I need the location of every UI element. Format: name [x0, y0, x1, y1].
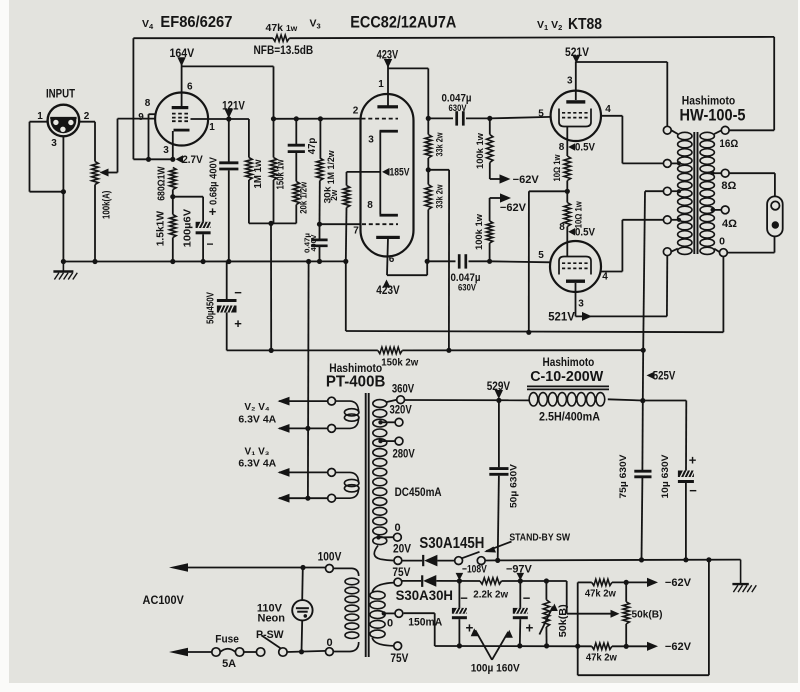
svg-text:1.5k1W: 1.5k1W: [155, 210, 166, 246]
svg-text:3: 3: [567, 76, 573, 87]
svg-text:EF86/6267: EF86/6267: [160, 14, 232, 31]
svg-text:47k 1w: 47k 1w: [266, 22, 298, 34]
svg-text:50k(B): 50k(B): [632, 608, 663, 620]
svg-text:33k 2w: 33k 2w: [434, 184, 445, 208]
svg-text:5: 5: [538, 250, 544, 261]
svg-text:100µ 160V: 100µ 160V: [471, 663, 521, 675]
svg-text:9: 9: [138, 112, 144, 123]
svg-text:−: −: [460, 591, 468, 606]
svg-text:3: 3: [51, 138, 57, 149]
svg-text:150k 1w: 150k 1w: [275, 159, 286, 189]
svg-text:521V: 521V: [548, 311, 575, 323]
svg-text:100µ6V: 100µ6V: [182, 209, 193, 248]
svg-text:−62V: −62V: [665, 577, 692, 589]
svg-text:1M 1w: 1M 1w: [253, 159, 264, 188]
svg-text:33k 2w: 33k 2w: [434, 132, 445, 156]
svg-text:8: 8: [367, 200, 373, 211]
svg-text:20k 1/2w: 20k 1/2w: [298, 181, 309, 213]
svg-text:2: 2: [84, 111, 90, 122]
svg-text:2.5H/400mA: 2.5H/400mA: [539, 411, 600, 423]
svg-text:100k 1w: 100k 1w: [475, 132, 486, 169]
svg-text:Neon: Neon: [258, 612, 286, 624]
svg-text:6.3V 4A: 6.3V 4A: [238, 413, 276, 425]
svg-text:320V: 320V: [389, 405, 412, 417]
svg-text:1: 1: [209, 122, 215, 133]
svg-text:0.5V: 0.5V: [575, 142, 596, 154]
svg-text:HW-100-5: HW-100-5: [680, 106, 746, 125]
svg-text:KT88: KT88: [568, 16, 602, 33]
svg-text:10µ 630V: 10µ 630V: [660, 454, 671, 499]
svg-text:5A: 5A: [222, 658, 236, 670]
svg-text:75µ 630V: 75µ 630V: [618, 454, 629, 499]
svg-text:680Ω1W: 680Ω1W: [156, 166, 167, 201]
svg-text:AC100V: AC100V: [143, 595, 185, 607]
svg-text:Fuse: Fuse: [215, 633, 239, 645]
svg-text:1: 1: [378, 79, 384, 90]
svg-text:V₂ V₄: V₂ V₄: [244, 402, 270, 413]
svg-text:100k 1w: 100k 1w: [474, 213, 485, 250]
svg-text:400V: 400V: [309, 234, 318, 251]
svg-text:360V: 360V: [392, 383, 415, 395]
svg-text:0: 0: [326, 637, 332, 649]
svg-text:2.2k 2w: 2.2k 2w: [473, 588, 509, 600]
svg-text:V₁ V₃: V₁ V₃: [245, 447, 270, 458]
svg-text:DC450mA: DC450mA: [395, 487, 442, 499]
svg-text:0.5V: 0.5V: [575, 226, 596, 238]
svg-text:47p: 47p: [307, 138, 318, 155]
svg-text:100k(A): 100k(A): [101, 191, 113, 220]
svg-text:−: −: [523, 591, 531, 606]
svg-text:50µ 630V: 50µ 630V: [508, 463, 519, 508]
svg-text:−: −: [234, 285, 242, 300]
svg-text:630V: 630V: [458, 283, 476, 293]
svg-text:STAND-BY SW: STAND-BY SW: [509, 532, 570, 543]
svg-text:121V: 121V: [222, 101, 245, 113]
svg-text:−: −: [206, 237, 213, 251]
svg-text:+: +: [209, 204, 217, 219]
svg-text:Hashimoto: Hashimoto: [543, 357, 595, 369]
svg-text:100V: 100V: [318, 551, 342, 563]
svg-text:3: 3: [368, 134, 374, 145]
svg-text:630V: 630V: [449, 103, 467, 113]
svg-text:4Ω: 4Ω: [722, 218, 737, 230]
svg-text:8Ω: 8Ω: [721, 180, 736, 192]
svg-text:10Ω 1w: 10Ω 1w: [552, 154, 563, 181]
svg-text:47k 2w: 47k 2w: [586, 651, 618, 663]
svg-text:1: 1: [37, 111, 43, 122]
svg-text:8: 8: [559, 222, 565, 233]
svg-text:C-10-200W: C-10-200W: [530, 369, 603, 385]
svg-text:7: 7: [353, 226, 359, 237]
svg-text:8: 8: [559, 142, 565, 153]
svg-text:525V: 525V: [653, 371, 676, 383]
svg-text:−62V: −62V: [500, 202, 527, 214]
svg-text:185V: 185V: [390, 167, 411, 179]
svg-text:INPUT: INPUT: [46, 89, 75, 101]
svg-text:P-SW: P-SW: [256, 629, 284, 641]
svg-text:2w: 2w: [329, 189, 340, 201]
svg-text:3: 3: [163, 145, 169, 156]
svg-text:8: 8: [145, 98, 151, 109]
svg-text:+: +: [234, 316, 242, 331]
svg-text:1M 1/2w: 1M 1/2w: [326, 150, 337, 185]
svg-text:150k 2w: 150k 2w: [381, 357, 419, 369]
svg-text:−108V: −108V: [462, 564, 487, 576]
svg-text:10Ω 1w: 10Ω 1w: [573, 201, 584, 228]
svg-text:0: 0: [387, 617, 393, 629]
svg-text:S30A145H: S30A145H: [419, 535, 484, 552]
svg-text:−: −: [689, 483, 697, 498]
svg-text:20V: 20V: [393, 543, 411, 555]
svg-text:47k 2w: 47k 2w: [585, 588, 617, 600]
svg-text:16Ω: 16Ω: [719, 138, 738, 150]
svg-text:6.3V 4A: 6.3V 4A: [238, 458, 276, 470]
svg-text:2: 2: [353, 106, 359, 117]
svg-text:S30A30H: S30A30H: [396, 587, 453, 603]
svg-text:5: 5: [538, 109, 544, 120]
svg-text:280V: 280V: [392, 449, 415, 461]
svg-text:0: 0: [394, 522, 400, 534]
svg-text:75V: 75V: [392, 567, 410, 579]
svg-text:PT-400B: PT-400B: [326, 374, 386, 391]
svg-text:150mA: 150mA: [408, 616, 442, 628]
svg-text:423V: 423V: [376, 285, 400, 297]
svg-text:6: 6: [389, 254, 395, 265]
svg-text:6: 6: [187, 82, 193, 93]
svg-text:−62V: −62V: [513, 174, 540, 186]
svg-text:+: +: [526, 621, 534, 636]
svg-text:50µ450V: 50µ450V: [205, 292, 216, 324]
svg-text:ECC82/12AU7A: ECC82/12AU7A: [350, 12, 456, 31]
svg-text:−62V: −62V: [665, 641, 692, 653]
svg-text:4: 4: [605, 104, 611, 115]
svg-text:2.7V: 2.7V: [182, 154, 203, 166]
svg-text:4: 4: [602, 272, 608, 283]
svg-text:+: +: [689, 453, 697, 468]
svg-text:3: 3: [578, 299, 584, 310]
svg-text:0: 0: [719, 236, 725, 248]
svg-text:NFB=13.5dB: NFB=13.5dB: [254, 43, 314, 57]
svg-text:0.68µ 400V: 0.68µ 400V: [208, 157, 219, 205]
svg-text:75V: 75V: [390, 653, 408, 665]
